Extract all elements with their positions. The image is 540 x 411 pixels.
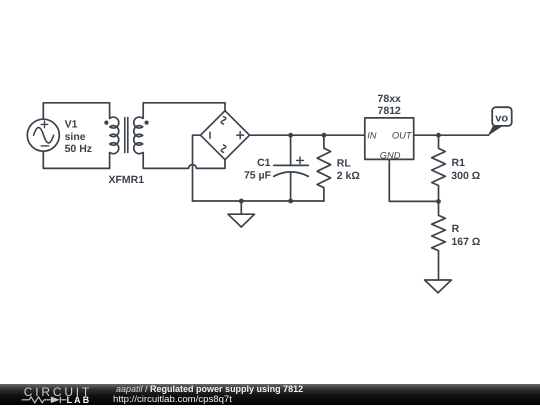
wire V1 loop bottom bbox=[43, 151, 109, 168]
svg-text:75 µF: 75 µF bbox=[244, 169, 272, 181]
svg-text:V1: V1 bbox=[65, 118, 78, 130]
voltage source V1 bbox=[27, 119, 59, 151]
wire top rail bridge to regulator bbox=[250, 134, 365, 136]
svg-text:R: R bbox=[452, 223, 460, 235]
svg-text:XFMR1: XFMR1 bbox=[109, 174, 145, 186]
svg-text:2 kΩ: 2 kΩ bbox=[337, 170, 360, 182]
svg-text:R1: R1 bbox=[452, 157, 466, 169]
junction node RL top bbox=[322, 133, 327, 138]
svg-text:sine: sine bbox=[65, 131, 86, 143]
wire bridge minus down to bottom rail bbox=[193, 135, 201, 201]
wire secondary bottom to bridge with hop bbox=[143, 153, 225, 169]
wire secondary top to bridge bbox=[143, 103, 225, 119]
svg-text:GND: GND bbox=[380, 150, 401, 160]
junction node ground tap bbox=[239, 199, 244, 204]
capacitor C1 bbox=[274, 135, 309, 201]
svg-text:50 Hz: 50 Hz bbox=[65, 143, 92, 155]
net flag VO bbox=[488, 107, 512, 136]
CircuitLab logo bbox=[21, 386, 96, 411]
regulator U1 7812 bbox=[365, 118, 414, 159]
ground 2 bbox=[425, 280, 452, 293]
junction node VO / R1 top bbox=[436, 133, 441, 138]
svg-text:LAB: LAB bbox=[67, 395, 92, 405]
svg-text:300 Ω: 300 Ω bbox=[451, 170, 480, 182]
svg-text:7812: 7812 bbox=[378, 105, 402, 117]
junction node R1/R divider bbox=[436, 199, 441, 204]
bridge rectifier D1 bbox=[201, 111, 250, 160]
wire V1 loop top bbox=[43, 103, 109, 119]
wire regulator GND to divider bbox=[389, 159, 438, 201]
footer line 1 bbox=[116, 384, 303, 394]
svg-text:IN: IN bbox=[367, 131, 377, 141]
wire regulator OUT to flag bbox=[414, 134, 489, 136]
transformer XFMR1 bbox=[104, 117, 148, 154]
svg-text:RL: RL bbox=[337, 157, 352, 169]
junction node C1 top bbox=[288, 133, 293, 138]
footer line 2 bbox=[113, 394, 232, 405]
resistor R1 bbox=[432, 135, 446, 201]
resistor RL bbox=[317, 135, 331, 201]
junction node C1 bottom bbox=[288, 199, 293, 204]
svg-text:OUT: OUT bbox=[392, 131, 413, 141]
svg-text:167 Ω: 167 Ω bbox=[451, 236, 480, 248]
svg-text:C1: C1 bbox=[257, 157, 271, 169]
footer bar bbox=[0, 384, 540, 405]
svg-text:78xx: 78xx bbox=[378, 93, 402, 105]
ground bbox=[228, 201, 255, 227]
wire bottom rail bbox=[193, 200, 324, 202]
svg-text:vo: vo bbox=[495, 113, 508, 125]
resistor R bbox=[432, 201, 446, 280]
